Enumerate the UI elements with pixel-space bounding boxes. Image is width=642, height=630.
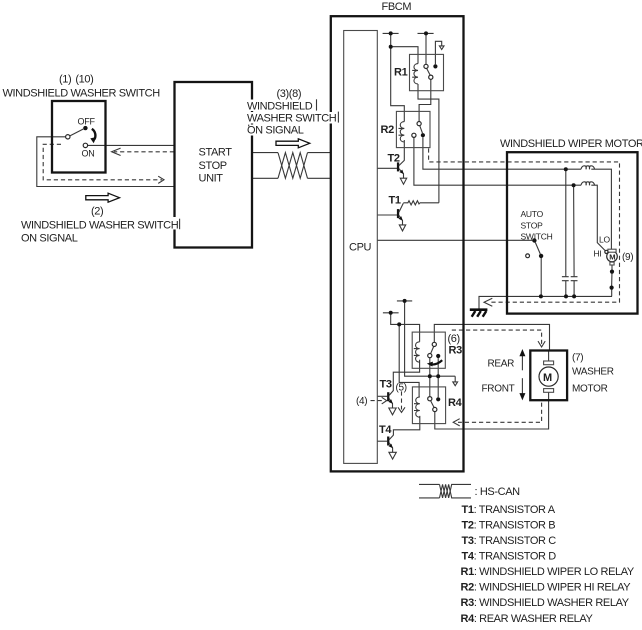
svg-text:CPU: CPU <box>349 242 372 254</box>
svg-text:START: START <box>199 147 233 159</box>
svg-text:M: M <box>609 252 615 261</box>
svg-text:ON: ON <box>82 149 95 159</box>
svg-text:R1: R1 <box>394 67 408 79</box>
svg-text:HI: HI <box>594 249 602 259</box>
svg-text:(1)(10): (1)(10) <box>59 74 93 86</box>
svg-text:: HS-CAN: : HS-CAN <box>475 486 521 498</box>
svg-text:T1: TRANSISTOR A: T1: TRANSISTOR A <box>462 504 556 516</box>
svg-text:STOP: STOP <box>199 160 227 172</box>
svg-text:FBCM: FBCM <box>382 1 412 13</box>
svg-text:(4): (4) <box>356 396 367 407</box>
svg-text:ON SIGNAL: ON SIGNAL <box>21 233 78 245</box>
svg-text:(5): (5) <box>396 383 407 394</box>
svg-text:T4: TRANSISTOR D: T4: TRANSISTOR D <box>462 551 557 563</box>
svg-text:WASHER: WASHER <box>572 367 614 378</box>
svg-text:(2): (2) <box>91 206 103 218</box>
svg-text:STOP: STOP <box>521 220 544 230</box>
svg-text:T1: T1 <box>389 195 401 207</box>
svg-text:T3: T3 <box>380 379 392 391</box>
svg-text:WINDSHIELD WIPER MOTOR: WINDSHIELD WIPER MOTOR <box>500 138 642 150</box>
svg-text:(3)(8): (3)(8) <box>277 88 302 100</box>
svg-text:(6): (6) <box>448 333 460 345</box>
svg-text:R3: WINDSHIELD WASHER RELAY: R3: WINDSHIELD WASHER RELAY <box>461 597 630 609</box>
svg-text:REAR: REAR <box>488 359 515 370</box>
svg-text:M: M <box>543 372 552 384</box>
svg-text:R2: WINDSHIELD WIPER HI RELAY: R2: WINDSHIELD WIPER HI RELAY <box>461 582 632 594</box>
svg-text:WASHER SWITCH: WASHER SWITCH <box>247 113 337 125</box>
svg-text:UNIT: UNIT <box>199 173 224 185</box>
svg-text:R1: WINDSHIELD WIPER LO RELAY: R1: WINDSHIELD WIPER LO RELAY <box>461 566 635 578</box>
svg-text:WINDSHIELD: WINDSHIELD <box>247 101 313 113</box>
svg-text:SWITCH: SWITCH <box>521 232 553 242</box>
svg-text:OFF: OFF <box>78 117 96 127</box>
svg-text:(7): (7) <box>572 353 583 364</box>
svg-text:ON SIGNAL: ON SIGNAL <box>247 125 304 137</box>
svg-text:(9): (9) <box>622 252 633 263</box>
svg-text:AUTO: AUTO <box>521 209 544 219</box>
svg-text:R3: R3 <box>449 345 463 357</box>
svg-text:T3: TRANSISTOR C: T3: TRANSISTOR C <box>462 535 557 547</box>
svg-text:T2: TRANSISTOR B: T2: TRANSISTOR B <box>462 520 556 532</box>
svg-text:R4: R4 <box>448 397 463 409</box>
svg-text:MOTOR: MOTOR <box>572 384 608 395</box>
svg-text:R2: R2 <box>381 124 395 136</box>
svg-text:WINDSHIELD WASHER SWITCH: WINDSHIELD WASHER SWITCH <box>21 220 179 232</box>
svg-text:T2: T2 <box>388 153 400 165</box>
svg-text:LO: LO <box>599 235 610 245</box>
svg-text:T4: T4 <box>379 424 392 436</box>
svg-text:R4: REAR WASHER RELAY: R4: REAR WASHER RELAY <box>461 613 594 625</box>
svg-text:WINDSHIELD WASHER SWITCH: WINDSHIELD WASHER SWITCH <box>3 88 161 100</box>
svg-text:FRONT: FRONT <box>482 384 515 395</box>
